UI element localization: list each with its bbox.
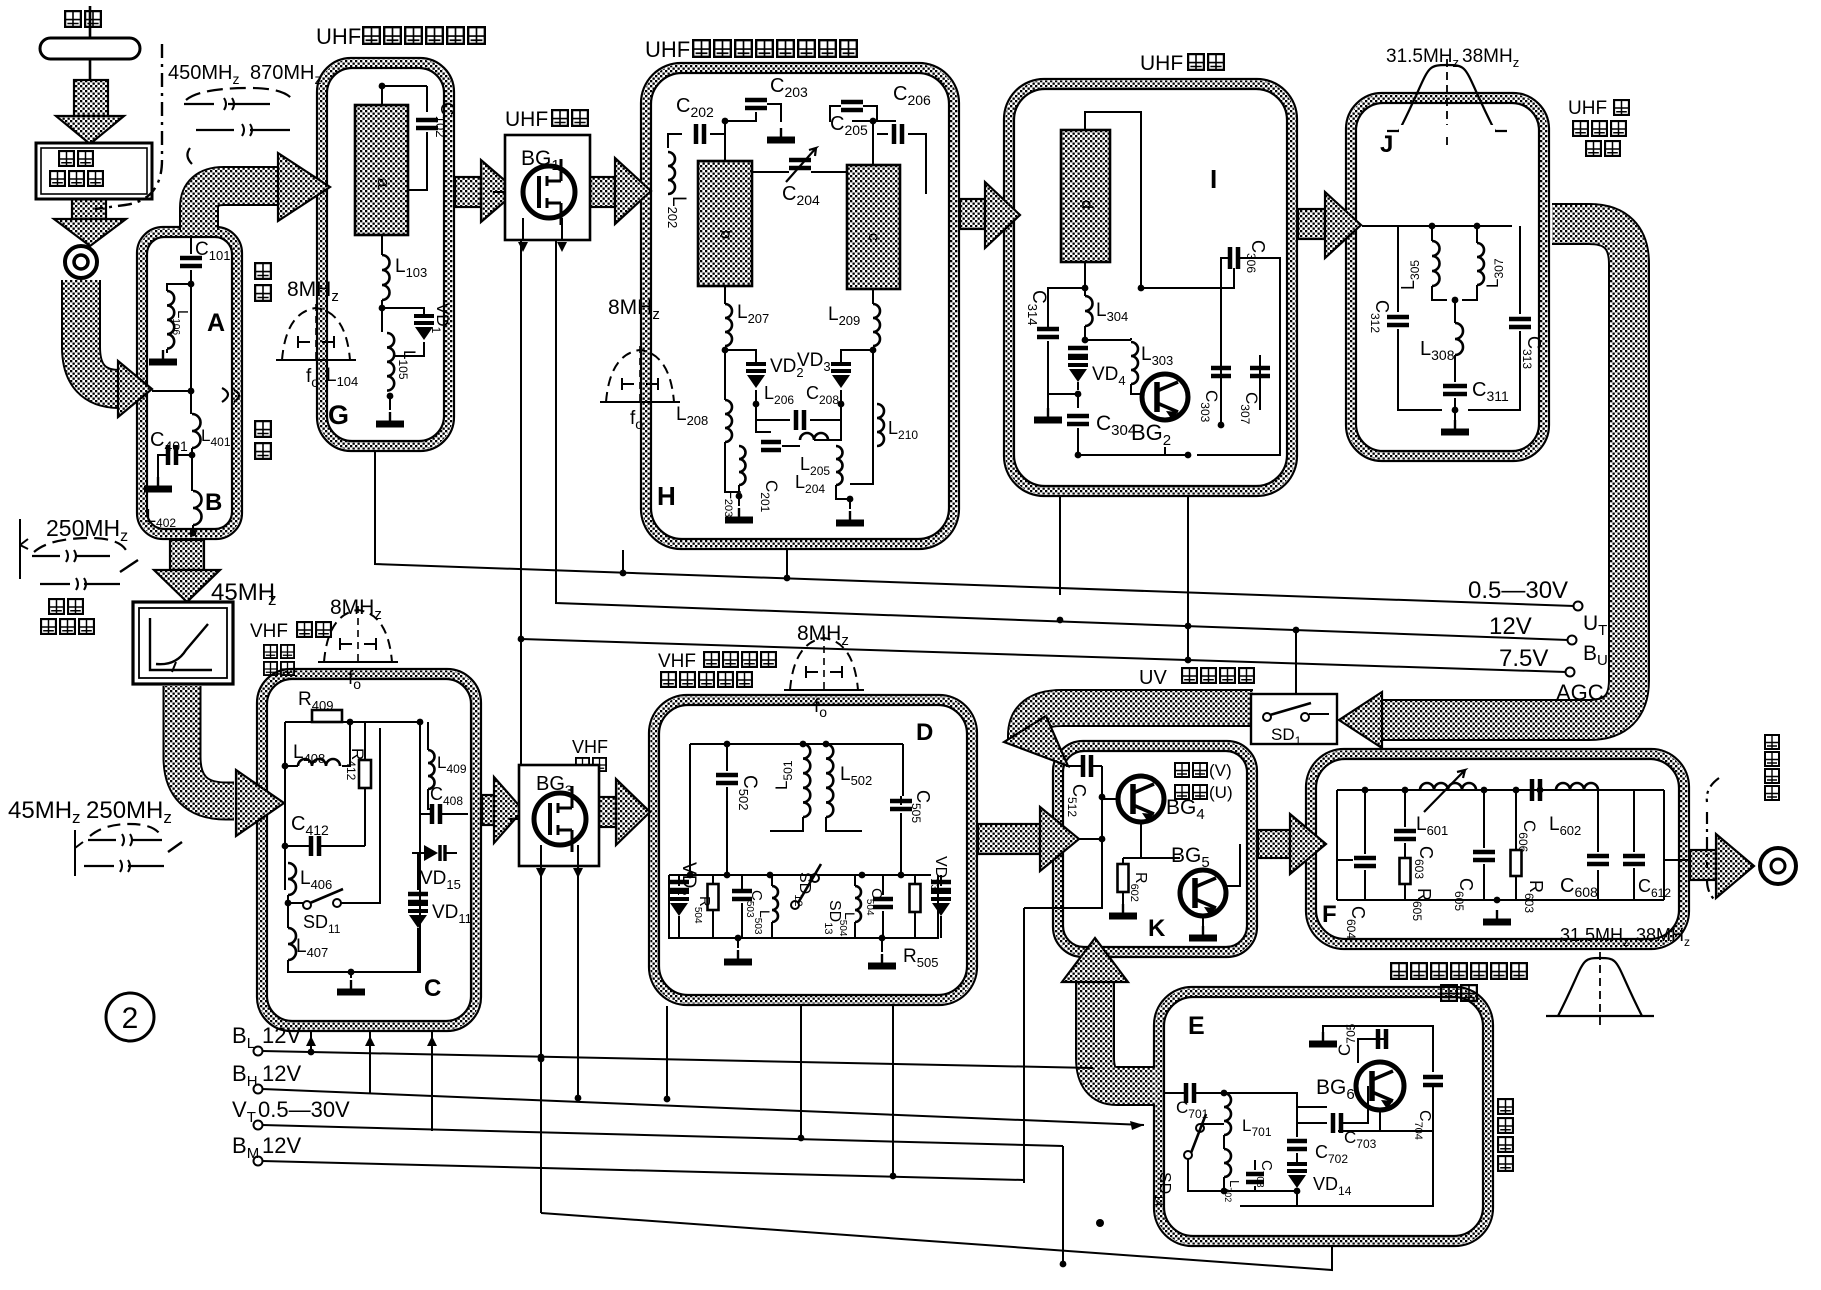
svg-text:E: E (1188, 1012, 1205, 1040)
svg-text:0.5—30V: 0.5—30V (258, 1097, 350, 1122)
wire SD11 to right (288, 728, 380, 903)
arrow antenna to impedance transformer (head) (56, 116, 124, 144)
label impedance transformer line1 (CJK) (59, 151, 74, 166)
wire C412 row (285, 838, 365, 846)
wire b bottom (724, 286, 726, 304)
wire J top rail (1362, 225, 1512, 227)
wire C704 down (1338, 1089, 1433, 1131)
wire J outer verticals (1398, 226, 1520, 314)
capacitor C608 (1587, 856, 1609, 864)
wire F bottom rail (1337, 860, 1690, 900)
wire to G ground (389, 396, 391, 410)
lead arrowheads BG3 (536, 868, 583, 878)
wire J bottom rail (1398, 329, 1520, 410)
band J to UV switch SD1 (1382, 224, 1629, 720)
block C (VHF RF input circuit) (257, 669, 481, 1031)
wire BG4 base (1102, 798, 1118, 800)
svg-text:F: F (1322, 901, 1337, 928)
wire coil bottoms (770, 817, 862, 831)
band E to K (1095, 982, 1155, 1086)
arrow G to BG1 (shaft) (455, 177, 481, 207)
wire C left vertical (285, 722, 298, 890)
wire to L210 (872, 350, 874, 404)
wire node to L105 (381, 308, 383, 332)
IF output terminal (1760, 848, 1796, 884)
wire VD11 leads (351, 853, 418, 972)
switch SD11 (303, 889, 343, 909)
resistor R505 (910, 884, 921, 912)
capacitor C408 (432, 804, 440, 824)
varactor diode VD1 (414, 316, 434, 340)
svg-text:(U): (U) (1209, 783, 1233, 802)
ground in G (389, 412, 391, 422)
capacitor C203 (745, 100, 767, 108)
wire I bottom rail (1078, 428, 1188, 455)
arrow BG1 to H (head) (615, 158, 651, 224)
label F caption l1 (CJK) (1391, 963, 1407, 979)
inductor L207 (725, 304, 732, 346)
wire L203 bottom (725, 442, 739, 492)
inductor L503 (772, 886, 778, 922)
resistor R409 (312, 710, 342, 722)
band symbol 45-250 (75, 824, 182, 876)
arrow into block A/B (head) (118, 361, 152, 417)
inductor L202 (668, 152, 675, 194)
resistor R412 (359, 760, 371, 788)
capacitor C206 (894, 124, 902, 144)
wire varicap bottoms (756, 390, 841, 410)
svg-text:D: D (916, 719, 933, 746)
transistor BG5 (1180, 870, 1226, 916)
wire G top node (382, 85, 427, 112)
svg-text:8MHz: 8MHz (287, 278, 339, 305)
IF trap filter box (45MHz) (133, 602, 233, 684)
svg-text:K: K (1148, 915, 1166, 942)
ground in E top (1322, 1032, 1324, 1042)
capacitor C612 (1623, 856, 1645, 864)
svg-text:12V: 12V (1489, 613, 1532, 640)
wire a to L103 (381, 235, 383, 255)
wire arrow to spine (152, 390, 191, 392)
capacitor C505 (890, 801, 912, 809)
arrow antenna to impedance transformer (shaft) (74, 80, 108, 116)
inductor L308 (1455, 323, 1463, 355)
svg-text:45MH: 45MH (211, 579, 275, 606)
inductor L210 (877, 404, 884, 446)
wire D mid comps (713, 875, 772, 938)
wire to C203 (725, 120, 743, 122)
wire to VD2 (725, 350, 756, 362)
band block A to block G (199, 186, 280, 230)
capacitor C512 (1083, 755, 1091, 777)
wire oscillator return line (541, 1213, 1332, 1270)
circled figure number 2 (106, 993, 154, 1041)
UHF resonator line a (355, 105, 408, 235)
transistor BG1 (523, 159, 575, 225)
arrow F to IF output (shaft) (1690, 850, 1716, 880)
capacitor C307 (1250, 368, 1270, 376)
supply rail BM 12V (254, 1157, 263, 1166)
svg-text:450MHz: 450MHz (168, 62, 239, 87)
wire E bottom rail (1240, 1086, 1433, 1206)
wire to C703 (1297, 1106, 1327, 1108)
small arrows into C bottom (306, 1036, 437, 1046)
wire to L208 (724, 350, 726, 400)
wire F top rail/left (1337, 790, 1664, 900)
varactor VD2 (D) (669, 882, 689, 890)
arrow into block C (head) (236, 770, 284, 836)
capacitor C304 (1067, 416, 1089, 424)
ground at BG5 (1202, 926, 1204, 936)
wire to C314 (1048, 288, 1085, 327)
label zhongfang (CJK) (1175, 785, 1189, 799)
wire SD14 (1188, 1124, 1224, 1191)
wire C bottom leads to bus (311, 1032, 432, 1131)
transistor BG2 (1142, 374, 1188, 420)
arrow C to BG3 (head) (494, 777, 523, 843)
inductor L106 (167, 291, 174, 349)
wire C705/BG6 loop (1358, 1026, 1433, 1072)
label gaofang BG3 (CJK) (576, 758, 589, 771)
wire to L406 (284, 846, 286, 863)
wire D right comps (855, 875, 941, 938)
wire D bottom leads to bus (667, 1006, 893, 1176)
label tong2 (CJK) (255, 443, 271, 459)
ground in B (157, 477, 159, 487)
inductor L601 (1420, 783, 1476, 790)
wire R602 (1123, 858, 1180, 906)
wire VD4 down (1077, 382, 1079, 390)
block D (VHF RF output double-tuned circuit) (649, 695, 977, 1005)
UHF resonator line b (698, 161, 752, 286)
inductor L105 (387, 333, 394, 391)
variable arrow L601 (1424, 770, 1465, 812)
label di (low pass) (CJK) (255, 421, 271, 437)
wire BG1 right lead to 12V rail (556, 240, 1568, 640)
varactor diode VD2 (746, 364, 766, 388)
wire C502 leads (726, 744, 728, 875)
label VHF out l1 (CJK) (704, 652, 719, 667)
wire E top (1323, 1026, 1379, 1032)
capacitor C311 (1443, 386, 1467, 394)
label shuru (CJK) (264, 645, 277, 658)
wire L308 to C311 (1454, 355, 1456, 432)
svg-text:UHF: UHF (316, 24, 361, 49)
label VHF gaofang (CJK) (297, 622, 312, 637)
label UHF IF out c1 (CJK) (1614, 100, 1629, 115)
inductor L406 (288, 863, 296, 895)
band symbol 450-870 (184, 88, 292, 164)
capacitor C101 (180, 258, 202, 266)
ground in D left (737, 950, 739, 960)
response curve below F (1546, 952, 1654, 1030)
svg-text:z: z (268, 590, 277, 609)
wire D top rail (690, 744, 903, 875)
wire d top loop (1085, 112, 1141, 290)
label UV switch cjk (CJK) (1182, 668, 1197, 683)
label UHF bianpin (CJK) (1188, 54, 1204, 70)
wire C603/R605 (1404, 790, 1406, 900)
arrow B to IF trap (shaft) (170, 540, 204, 570)
inductor L304 (1085, 296, 1093, 326)
wire L106 to ground (166, 349, 168, 353)
arrow BG3 to D (head) (616, 779, 650, 845)
arrow impedance to connector (head) (54, 219, 126, 246)
svg-text:b: b (717, 230, 734, 239)
ground in C (350, 980, 352, 990)
wire L304 to node (1084, 326, 1086, 340)
svg-text:12V: 12V (262, 1061, 301, 1086)
wire L303 to BG2 base (1131, 384, 1141, 394)
label impedance transformer line2 (CJK) (50, 171, 65, 186)
label UHF gaofang (CJK) (552, 110, 568, 126)
wire node to b top (724, 121, 726, 161)
band connector to block A/B (81, 280, 122, 389)
wire BG5 collector up (1226, 844, 1240, 886)
svg-text:31.5MHz: 31.5MHz (1386, 46, 1459, 70)
inductor L203 (739, 446, 746, 485)
wire C604 (1364, 790, 1366, 900)
wire L409 (427, 722, 429, 805)
wire VD14 (1296, 1153, 1298, 1206)
inductor L504 (855, 886, 861, 922)
svg-text:UHF: UHF (1568, 98, 1607, 119)
label UHF gaofang input circuit (CJK) (363, 27, 380, 44)
label IF trap line1 (CJK) (49, 599, 64, 614)
wire BG4 emitter to BG5 (1141, 822, 1180, 858)
label VHF out l2 (CJK) (661, 672, 676, 687)
wire to L106 (167, 284, 191, 291)
svg-text:VHF: VHF (250, 621, 288, 642)
block H (UHF RF output double-tuned circuit) (641, 63, 959, 549)
wire C205 leads (830, 106, 877, 122)
wire K input node down to BM rail (1023, 908, 1025, 1183)
wire L204/L210 bottom (836, 404, 873, 499)
capacitor C303 (1211, 368, 1231, 376)
divider arcs A/B (222, 388, 239, 402)
wire L701 to C702 (1224, 1093, 1297, 1149)
supply rail BL 12V (254, 1047, 263, 1056)
inductor L501 (803, 744, 810, 817)
resistor R603 (1511, 850, 1522, 876)
capacitor C605 (1473, 852, 1495, 860)
svg-text:12V: 12V (262, 1133, 301, 1158)
capacitor C204 (variable) (789, 160, 811, 168)
terminal 7.5V (1566, 668, 1575, 677)
label gao (high pass) (CJK) (255, 263, 271, 279)
varactor VD15 (412, 845, 457, 861)
varactor diode VD4 (1068, 358, 1088, 382)
capacitor C314 (1037, 329, 1059, 337)
inductor L502 (826, 744, 833, 817)
wire to H ground right (849, 499, 851, 509)
svg-text:J: J (1380, 131, 1393, 158)
wire 7.5V rail (521, 639, 1566, 672)
switch SD1 (1263, 703, 1311, 721)
capacitor C201 (761, 442, 781, 450)
capacitor C701 (1186, 1083, 1194, 1103)
block K (mixer V / IF amp U) (1053, 741, 1257, 957)
wire C612/right (1634, 790, 1664, 900)
inductor L408 (298, 759, 340, 766)
antenna symbol (40, 6, 140, 79)
IF response curve above J (1387, 59, 1507, 145)
ground in J (1454, 420, 1456, 430)
wire R412 leads (364, 722, 366, 838)
arrow BG1 to H (shaft) (590, 177, 615, 207)
wire top right node (852, 120, 896, 122)
svg-text:250MHz: 250MHz (86, 797, 172, 827)
label hunpin (CJK) (1175, 763, 1189, 777)
svg-text:UV: UV (1139, 667, 1167, 689)
capacitor C412 (311, 836, 319, 856)
capacitor C313 (1509, 319, 1531, 327)
capacitor C705 (1378, 1029, 1386, 1049)
capacitor C502 (716, 775, 738, 783)
wire C top rail (285, 721, 420, 723)
capacitor C703 (1333, 1113, 1341, 1133)
capacitor C702 (1287, 1141, 1307, 1149)
inductor L602 (1556, 783, 1598, 790)
wire caps C303 C307 (1221, 355, 1260, 425)
wire C202 to node (710, 121, 725, 134)
wire I bottom leads down (1060, 497, 1188, 660)
label F caption l2 (CJK) (1441, 985, 1457, 1001)
wire L406 to SD11 (287, 895, 289, 903)
ground at C203 (780, 128, 782, 138)
inductor L303 (1131, 342, 1138, 384)
block E (local oscillator) (1154, 987, 1493, 1246)
wire H bottom left lead (622, 550, 624, 576)
arrow band SD1 end (head) (1004, 716, 1068, 766)
resistor R605 (1400, 858, 1411, 884)
capacitor C202 (696, 124, 704, 144)
capacitor C503 (732, 891, 752, 899)
inductor L307 (1477, 243, 1484, 285)
inductor L305 (1432, 241, 1440, 286)
wire C206 leads (877, 134, 926, 194)
wire A spine (190, 237, 192, 390)
arrow impedance to connector (shaft) (72, 199, 106, 219)
capacitor C704 (1423, 1077, 1443, 1085)
wire d bottom (1084, 262, 1086, 288)
arrow I to J (shaft) (1298, 209, 1325, 239)
svg-text:H: H (657, 481, 676, 511)
capacitor C205 (841, 102, 863, 110)
resistor R602 (1118, 864, 1129, 892)
svg-text:12V: 12V (262, 1023, 301, 1048)
arrow into IF trap (head) (154, 570, 220, 602)
wire to H ground left (738, 496, 740, 506)
arrow C to BG3 (shaft) (482, 795, 494, 825)
arrow F to IF output (head) (1716, 834, 1754, 898)
label benji zhendang (CJK) (1498, 1099, 1513, 1114)
transistor BG4 (1118, 776, 1164, 822)
wire L205 to VD3 node (814, 404, 841, 440)
svg-text:d: d (1078, 200, 1095, 209)
capacitor C504 (873, 899, 893, 907)
switch SD14 (1184, 1114, 1206, 1159)
inductor L205 (800, 433, 828, 440)
label UHF output double-tuned (CJK) (693, 40, 710, 57)
svg-text:(V): (V) (1209, 761, 1232, 780)
svg-text:c: c (865, 233, 882, 241)
variable arrow C204 (786, 148, 816, 182)
capacitor C102 (416, 120, 438, 128)
arrow BG3 to D (shaft) (599, 797, 616, 827)
svg-text:7.5V: 7.5V (1499, 645, 1548, 672)
inductor L208 (725, 400, 732, 442)
wire L402 to exit (192, 525, 194, 536)
wire BG1 leads (493, 192, 562, 240)
wire C201 row (756, 404, 800, 446)
wire VD2 leads (678, 875, 680, 938)
label IF trap line2 (CJK) (41, 619, 56, 634)
wire L103 to node (381, 300, 383, 310)
inductor L204 (836, 446, 843, 485)
block F (mixer-IF output circuit) (1306, 749, 1689, 949)
arrow I to J (head) (1325, 192, 1361, 258)
arrow D to K (shaft) (978, 824, 1040, 854)
wire D bottom rail (669, 875, 938, 952)
dash-dot boundary around antenna (95, 44, 162, 209)
arrow H to I (head) (985, 182, 1020, 248)
arrow G to BG1 (head) (481, 160, 517, 222)
wire SD1 top to 12V rail (1295, 630, 1297, 694)
wire BG5 emitter (1202, 916, 1204, 926)
svg-text:0.5—30V: 0.5—30V (1468, 577, 1568, 604)
svg-text:UHF: UHF (1140, 52, 1183, 75)
wire to C306 (1141, 268, 1234, 288)
UHF resonator line d (1061, 130, 1110, 262)
label UHF IF out c3 (CJK) (1586, 141, 1601, 156)
inductor L409 (428, 750, 435, 789)
wire C203 right (767, 104, 781, 122)
switch SD12 (791, 864, 821, 909)
wire C208 row (756, 419, 841, 421)
svg-text:45MHz: 45MHz (8, 797, 81, 827)
coax connector ring (65, 246, 97, 278)
wire arrow tip to vertical (1079, 838, 1102, 840)
wire BG1 left lead down (520, 240, 522, 639)
wire to L305 L307 (1432, 226, 1477, 243)
resistor R504 (708, 884, 719, 910)
band SD1 to K input (1026, 708, 1253, 740)
dash-dot line near output (1707, 778, 1719, 902)
svg-text:a: a (374, 178, 393, 188)
wire c bottom (872, 289, 874, 304)
stray junction dot near E (1096, 1219, 1104, 1227)
capacitor C606 (1532, 779, 1540, 801)
terminal 12V (1568, 636, 1577, 645)
SD1 box (UV changeover switch) (1251, 694, 1337, 744)
inductor L702 (1224, 1149, 1231, 1177)
supply rail VT 0.5-30V (254, 1121, 263, 1130)
wire node to VD1 (382, 308, 424, 316)
wire to C ground (350, 972, 352, 978)
ground in D right (881, 954, 883, 964)
BG1 box (UHF RF amp) (505, 135, 590, 240)
wire to L402 (191, 455, 193, 491)
wire C401 to ground (158, 455, 168, 481)
inductor L701 (1224, 1093, 1231, 1135)
band IF trap to block C (182, 686, 234, 801)
wire VD4 node (1048, 394, 1078, 408)
wire L408 to R412 top (342, 722, 350, 766)
capacitor C603 (1394, 831, 1416, 839)
svg-text:B: B (205, 489, 222, 516)
varactor diode VD14 (1287, 1164, 1307, 1188)
